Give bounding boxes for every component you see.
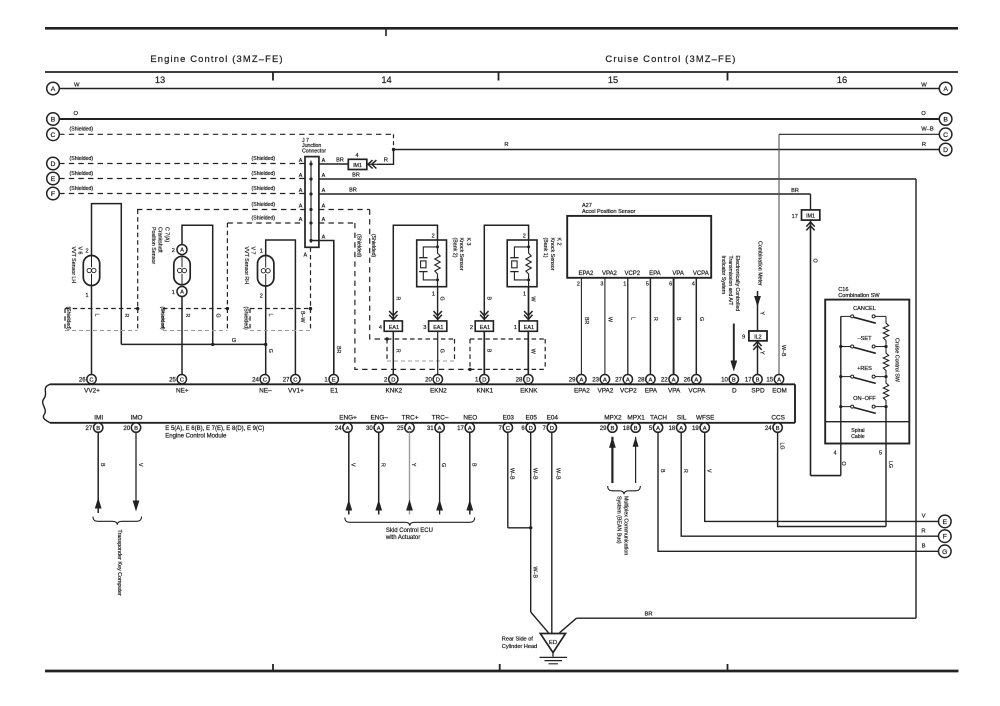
svg-text:TRC+: TRC+ (402, 414, 419, 421)
svg-text:VVT Sensor RH: VVT Sensor RH (243, 247, 249, 285)
svg-text:A: A (603, 377, 607, 383)
svg-text:24: 24 (335, 425, 342, 432)
svg-text:15: 15 (608, 75, 618, 85)
svg-text:19: 19 (692, 425, 699, 432)
svg-text:V: V (922, 514, 926, 520)
svg-text:BR: BR (349, 187, 357, 193)
svg-text:1: 1 (172, 290, 175, 296)
svg-text:B: B (732, 377, 736, 383)
svg-text:(Shielded): (Shielded) (252, 202, 276, 208)
svg-text:Accel Position Sensor: Accel Position Sensor (582, 209, 636, 215)
svg-text:18: 18 (669, 425, 676, 432)
svg-text:KNK2: KNK2 (385, 388, 402, 395)
svg-text:L: L (93, 314, 99, 317)
svg-text:A: A (346, 426, 350, 432)
svg-text:G: G (942, 549, 947, 556)
svg-text:A: A (299, 173, 303, 179)
svg-text:A: A (299, 217, 303, 223)
svg-text:IM1: IM1 (353, 163, 362, 169)
svg-text:G: G (232, 338, 237, 344)
svg-text:EKNK: EKNK (520, 388, 538, 395)
svg-text:W–B: W–B (509, 468, 515, 480)
svg-text:2: 2 (470, 325, 473, 331)
svg-text:B: B (756, 377, 760, 383)
svg-text:A: A (777, 377, 781, 383)
svg-text:B: B (51, 117, 56, 124)
svg-text:Engine Control Module: Engine Control Module (165, 434, 227, 440)
svg-text:Skid Control ECU: Skid Control ECU (386, 528, 433, 534)
svg-text:L: L (629, 317, 635, 320)
svg-text:F: F (51, 191, 55, 198)
svg-text:27: 27 (615, 377, 622, 384)
svg-text:EPA: EPA (645, 388, 658, 395)
svg-text:R: R (682, 469, 688, 473)
svg-text:(Shielded): (Shielded) (65, 307, 71, 331)
svg-text:D: D (529, 426, 533, 432)
svg-text:+RES: +RES (857, 366, 872, 372)
svg-text:VV2+: VV2+ (84, 388, 100, 395)
svg-text:D: D (550, 426, 554, 432)
svg-text:IM1: IM1 (806, 214, 815, 220)
svg-text:SIL: SIL (677, 414, 687, 421)
svg-text:A: A (579, 377, 583, 383)
svg-text:Y: Y (759, 312, 765, 316)
svg-text:E: E (51, 176, 56, 183)
svg-text:A: A (438, 426, 442, 432)
svg-text:5: 5 (646, 282, 649, 288)
svg-text:NE+: NE+ (176, 388, 189, 395)
svg-text:BR: BR (352, 173, 360, 179)
svg-text:R: R (395, 297, 401, 301)
svg-text:TACH: TACH (650, 414, 667, 421)
svg-text:V: V (137, 463, 143, 467)
svg-text:W–B: W–B (532, 468, 538, 480)
svg-text:R: R (921, 528, 925, 534)
svg-text:A: A (180, 290, 184, 296)
svg-text:V: V (706, 469, 712, 473)
svg-text:B: B (486, 349, 492, 353)
svg-text:B: B (776, 426, 780, 432)
svg-text:BR: BR (335, 346, 341, 354)
svg-text:O: O (921, 111, 926, 117)
svg-text:W–B: W–B (532, 567, 538, 579)
svg-text:20: 20 (425, 377, 432, 384)
svg-text:1: 1 (260, 249, 263, 255)
svg-text:LG: LG (779, 443, 785, 450)
svg-text:EA1: EA1 (433, 325, 443, 331)
svg-text:B: B (486, 297, 492, 301)
svg-text:IL2: IL2 (754, 335, 761, 341)
svg-text:G: G (438, 297, 444, 301)
svg-text:A: A (322, 217, 326, 223)
svg-text:A: A (943, 86, 948, 93)
svg-text:(Shielded): (Shielded) (370, 234, 376, 258)
svg-text:Y: Y (410, 463, 416, 467)
svg-text:L: L (267, 314, 273, 317)
svg-text:1: 1 (432, 291, 435, 297)
svg-text:B: B (922, 544, 926, 550)
svg-text:26: 26 (684, 377, 691, 384)
svg-text:O: O (811, 259, 817, 263)
svg-text:EPA: EPA (649, 271, 661, 277)
svg-text:VCP2: VCP2 (624, 271, 640, 277)
svg-text:1: 1 (324, 377, 328, 384)
svg-text:A: A (408, 426, 412, 432)
svg-text:26: 26 (79, 377, 86, 384)
svg-text:O: O (840, 462, 846, 466)
svg-text:G: G (440, 463, 446, 467)
svg-text:D: D (51, 161, 56, 168)
svg-text:B: B (634, 426, 638, 432)
svg-text:EOM: EOM (772, 388, 787, 395)
svg-text:A: A (322, 234, 326, 240)
svg-text:ENG+: ENG+ (339, 414, 357, 421)
svg-text:5: 5 (879, 451, 882, 457)
svg-text:B–W: B–W (299, 311, 305, 322)
svg-text:28: 28 (638, 377, 645, 384)
svg-text:R: R (379, 463, 385, 467)
svg-text:V 7: V 7 (249, 247, 255, 255)
svg-text:A: A (299, 158, 303, 164)
svg-text:Engine Control (3MZ–FE): Engine Control (3MZ–FE) (150, 53, 283, 64)
svg-text:R: R (395, 349, 401, 353)
svg-text:E04: E04 (547, 414, 559, 421)
svg-text:W–B: W–B (555, 468, 561, 480)
svg-text:A: A (703, 426, 707, 432)
svg-text:MPX2: MPX2 (604, 414, 622, 421)
svg-text:2: 2 (260, 293, 263, 299)
svg-text:D: D (526, 377, 530, 383)
svg-text:R: R (384, 157, 388, 163)
svg-text:17: 17 (745, 377, 752, 384)
svg-text:23: 23 (592, 377, 599, 384)
svg-text:(Shielded): (Shielded) (252, 215, 276, 221)
svg-text:G: G (267, 349, 273, 353)
svg-text:VVT Sensor LH: VVT Sensor LH (70, 247, 76, 284)
svg-text:E 5(A), E 6(B), E 7(E), E 8(D): E 5(A), E 6(B), E 7(E), E 8(D), E 9(C) (165, 426, 264, 432)
svg-text:KNK1: KNK1 (476, 388, 493, 395)
svg-text:G: G (438, 349, 444, 353)
svg-text:BR: BR (791, 188, 799, 194)
svg-text:A: A (656, 426, 660, 432)
svg-text:D: D (391, 377, 395, 383)
svg-text:Rear Side of: Rear Side of (502, 637, 534, 643)
svg-text:14: 14 (381, 75, 391, 85)
svg-text:EA1: EA1 (480, 325, 490, 331)
svg-text:(Shielded): (Shielded) (252, 156, 276, 162)
svg-text:IMI: IMI (94, 414, 103, 421)
svg-text:18: 18 (623, 425, 630, 432)
svg-text:VCPA: VCPA (688, 388, 706, 395)
svg-text:SPD: SPD (751, 388, 765, 395)
svg-text:W: W (921, 83, 927, 89)
svg-text:W: W (74, 83, 80, 89)
svg-text:D: D (436, 377, 440, 383)
svg-text:A: A (322, 158, 326, 164)
svg-text:15: 15 (766, 377, 773, 384)
svg-text:2: 2 (86, 249, 89, 255)
svg-text:13: 13 (155, 75, 165, 85)
svg-text:A: A (322, 203, 326, 209)
svg-text:C16: C16 (838, 287, 848, 293)
svg-text:E: E (943, 519, 948, 526)
svg-text:TRC–: TRC– (432, 414, 449, 421)
svg-text:30: 30 (366, 425, 373, 432)
svg-text:9: 9 (742, 335, 745, 341)
svg-text:W: W (529, 349, 535, 354)
svg-text:CCS: CCS (771, 414, 785, 421)
svg-text:VV1+: VV1+ (288, 388, 304, 395)
svg-text:R: R (922, 142, 926, 148)
svg-text:A: A (468, 426, 472, 432)
svg-text:NE–: NE– (259, 388, 272, 395)
svg-text:ED: ED (549, 640, 557, 646)
svg-text:28: 28 (516, 377, 523, 384)
svg-text:31: 31 (427, 425, 434, 432)
svg-text:E: E (332, 377, 336, 383)
svg-text:EPA2: EPA2 (574, 388, 590, 395)
svg-text:W: W (606, 317, 612, 322)
svg-text:G: G (698, 317, 704, 321)
svg-text:(Shielded): (Shielded) (252, 171, 276, 177)
svg-text:3: 3 (423, 325, 426, 331)
svg-text:W: W (529, 297, 535, 302)
svg-text:4: 4 (692, 282, 695, 288)
svg-text:6: 6 (521, 425, 525, 432)
svg-text:24: 24 (765, 425, 772, 432)
svg-text:D: D (732, 388, 737, 395)
svg-text:Connector: Connector (302, 149, 326, 155)
svg-text:EPA2: EPA2 (578, 271, 594, 277)
svg-text:B: B (675, 317, 681, 321)
svg-text:EA1: EA1 (389, 325, 399, 331)
svg-text:Cruise Control (3MZ–FE): Cruise Control (3MZ–FE) (605, 53, 736, 64)
svg-text:1: 1 (623, 282, 626, 288)
svg-text:4: 4 (355, 153, 358, 159)
svg-text:A: A (299, 188, 303, 194)
svg-text:(Shielded): (Shielded) (159, 307, 165, 331)
svg-text:4: 4 (379, 325, 382, 331)
svg-text:R: R (652, 317, 658, 321)
svg-text:Combination SW: Combination SW (838, 293, 880, 299)
svg-text:2: 2 (432, 234, 435, 240)
svg-text:A: A (322, 188, 326, 194)
svg-text:(Shielded): (Shielded) (70, 156, 94, 162)
svg-text:A: A (304, 253, 308, 259)
svg-text:A: A (626, 377, 630, 383)
svg-text:C: C (89, 377, 93, 383)
svg-text:CANCEL: CANCEL (853, 306, 876, 312)
svg-text:B: B (943, 117, 948, 124)
svg-text:A: A (648, 377, 652, 383)
svg-text:O: O (74, 111, 79, 117)
svg-text:10: 10 (721, 377, 728, 384)
svg-text:4: 4 (833, 451, 836, 457)
svg-text:25: 25 (169, 377, 176, 384)
svg-text:Cylinder Head: Cylinder Head (502, 644, 537, 650)
svg-text:Combination Meter: Combination Meter (756, 241, 762, 286)
svg-text:B: B (610, 426, 614, 432)
svg-text:(Shielded): (Shielded) (70, 171, 94, 177)
svg-text:B: B (659, 469, 665, 473)
svg-text:V 6: V 6 (77, 247, 83, 255)
svg-text:16: 16 (837, 75, 847, 85)
svg-text:B: B (96, 426, 100, 432)
svg-text:VPA: VPA (668, 388, 681, 395)
svg-text:(Shielded): (Shielded) (252, 186, 276, 192)
svg-text:VPA: VPA (672, 271, 684, 277)
svg-text:BR: BR (644, 611, 652, 617)
svg-text:VPA2: VPA2 (602, 271, 618, 277)
svg-text:A: A (679, 426, 683, 432)
svg-text:EKN2: EKN2 (430, 388, 447, 395)
svg-text:2: 2 (523, 234, 526, 240)
svg-text:W–B: W–B (780, 345, 786, 357)
svg-text:D: D (943, 147, 948, 154)
svg-text:C: C (943, 132, 948, 139)
svg-text:(Shielded): (Shielded) (70, 186, 94, 192)
svg-text:R: R (504, 142, 508, 148)
svg-text:B: B (99, 463, 105, 467)
svg-text:WFSE: WFSE (696, 414, 714, 421)
svg-text:A: A (672, 377, 676, 383)
svg-text:27: 27 (283, 377, 290, 384)
svg-text:2: 2 (172, 248, 175, 254)
svg-text:E05: E05 (526, 414, 538, 421)
svg-text:R: R (123, 314, 129, 318)
svg-text:A: A (180, 248, 184, 254)
svg-text:17: 17 (457, 425, 464, 432)
svg-text:17: 17 (792, 214, 798, 220)
svg-text:D: D (482, 377, 486, 383)
svg-text:IMO: IMO (130, 414, 142, 421)
svg-text:W–B: W–B (921, 127, 934, 133)
svg-text:VPA2: VPA2 (597, 388, 613, 395)
svg-text:C: C (180, 377, 184, 383)
svg-text:24: 24 (252, 377, 259, 384)
svg-text:BR: BR (583, 317, 589, 325)
svg-text:E03: E03 (503, 414, 515, 421)
svg-text:VCP2: VCP2 (620, 388, 637, 395)
svg-text:A: A (377, 426, 381, 432)
svg-text:C: C (263, 377, 267, 383)
svg-text:3: 3 (600, 282, 603, 288)
svg-text:2: 2 (577, 282, 580, 288)
svg-text:NEO: NEO (463, 414, 477, 421)
svg-text:29: 29 (569, 377, 576, 384)
svg-text:MPX1: MPX1 (627, 414, 645, 421)
svg-text:ENG–: ENG– (370, 414, 388, 421)
svg-text:(Shielded): (Shielded) (243, 307, 249, 331)
svg-text:C: C (506, 426, 510, 432)
svg-text:–SET: –SET (858, 336, 873, 342)
svg-text:25: 25 (397, 425, 404, 432)
svg-text:EA1: EA1 (524, 325, 534, 331)
svg-text:ON–OFF: ON–OFF (853, 396, 876, 402)
svg-text:A: A (299, 203, 303, 209)
svg-text:G: G (214, 314, 220, 318)
svg-text:C: C (293, 377, 297, 383)
svg-text:R: R (184, 314, 190, 318)
svg-text:20: 20 (123, 425, 130, 432)
svg-text:LG: LG (887, 461, 893, 468)
svg-text:BR: BR (336, 158, 344, 164)
svg-text:Cruise Control SW: Cruise Control SW (894, 338, 900, 382)
svg-text:F: F (943, 534, 947, 541)
svg-text:22: 22 (661, 377, 668, 384)
svg-text:A27: A27 (582, 203, 592, 209)
svg-text:C: C (51, 132, 56, 139)
svg-text:Cable: Cable (851, 434, 865, 440)
svg-text:B: B (470, 463, 476, 467)
svg-text:29: 29 (600, 425, 607, 432)
svg-text:A: A (694, 377, 698, 383)
svg-text:Y: Y (759, 351, 765, 355)
svg-text:VCPA: VCPA (693, 271, 709, 277)
svg-text:1: 1 (514, 325, 517, 331)
svg-text:B: B (134, 426, 138, 432)
svg-text:E1: E1 (330, 388, 338, 395)
svg-text:6: 6 (669, 282, 672, 288)
svg-text:1: 1 (86, 293, 89, 299)
svg-text:A: A (322, 173, 326, 179)
svg-text:(Shielded): (Shielded) (70, 127, 94, 133)
svg-text:A: A (51, 86, 56, 93)
svg-text:Transponder Key Computer: Transponder Key Computer (116, 530, 122, 597)
svg-text:1: 1 (523, 291, 526, 297)
svg-text:(Shielded): (Shielded) (355, 234, 361, 258)
svg-text:with Actuator: with Actuator (385, 535, 420, 541)
svg-text:27: 27 (86, 425, 93, 432)
svg-text:V: V (349, 463, 355, 467)
